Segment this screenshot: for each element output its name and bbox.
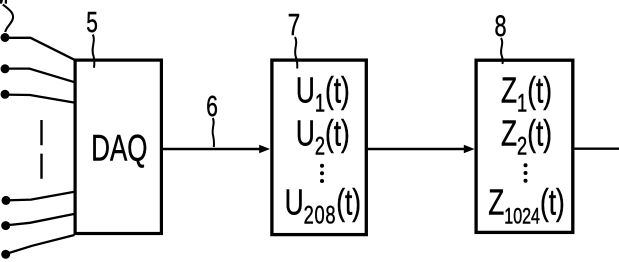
arrow 6: DAQ to block 7 <box>163 148 261 150</box>
wire from dot 4 to DAQ <box>6 192 75 201</box>
node dot 4 <box>2 196 11 205</box>
leader squiggle for 8 <box>501 38 503 64</box>
leader squiggle for 6 <box>213 118 214 147</box>
arrow: block 7 to block 8 <box>368 148 465 150</box>
output wire from block 8 <box>575 147 619 149</box>
svg-text:DAQ: DAQ <box>91 127 147 169</box>
svg-text:7: 7 <box>288 7 300 41</box>
svg-text:6: 6 <box>206 91 218 123</box>
label 8 <box>494 8 506 42</box>
U1(t) <box>296 69 350 117</box>
block 8 box <box>476 60 573 232</box>
wire from dot 6 to DAQ corner <box>6 235 75 254</box>
U2(t) <box>296 112 350 160</box>
label 5 <box>86 7 98 39</box>
DAQ text <box>91 127 147 169</box>
vertical ellipsis in block 8 <box>524 163 528 167</box>
vertical ellipsis in block 7 <box>320 164 324 168</box>
DAQ box (block 5) <box>75 60 161 233</box>
svg-text:Z2(t): Z2(t) <box>501 112 552 160</box>
leader squiggle for 4 <box>3 5 13 33</box>
wire from dot 1 to DAQ <box>5 38 75 60</box>
label 7 <box>288 7 300 41</box>
leader squiggle for 5 <box>93 35 95 68</box>
Z1(t) <box>501 69 552 117</box>
node dot 3 <box>1 90 10 99</box>
wire from dot 2 to DAQ <box>5 69 75 83</box>
node dot 1 <box>1 33 10 42</box>
svg-text:Z1(t): Z1(t) <box>501 69 552 117</box>
label 4 (partially cut at top edge) <box>0 0 3 4</box>
wire from dot 5 to DAQ <box>6 214 75 226</box>
ellipsis dashed line between input groups <box>40 120 42 180</box>
block 7 box <box>272 60 366 235</box>
svg-text:5: 5 <box>86 7 98 39</box>
Z2(t) <box>501 112 552 160</box>
node dot 5 <box>1 221 10 230</box>
wire from dot 3 to DAQ <box>5 95 75 103</box>
Z1024(t) <box>488 181 565 229</box>
leader squiggle for 7 <box>295 37 297 69</box>
node dot 2 <box>1 64 10 73</box>
label 6 <box>206 91 218 123</box>
svg-text:8: 8 <box>494 8 506 42</box>
U208(t) <box>285 181 361 229</box>
node dot 6 <box>1 250 10 259</box>
